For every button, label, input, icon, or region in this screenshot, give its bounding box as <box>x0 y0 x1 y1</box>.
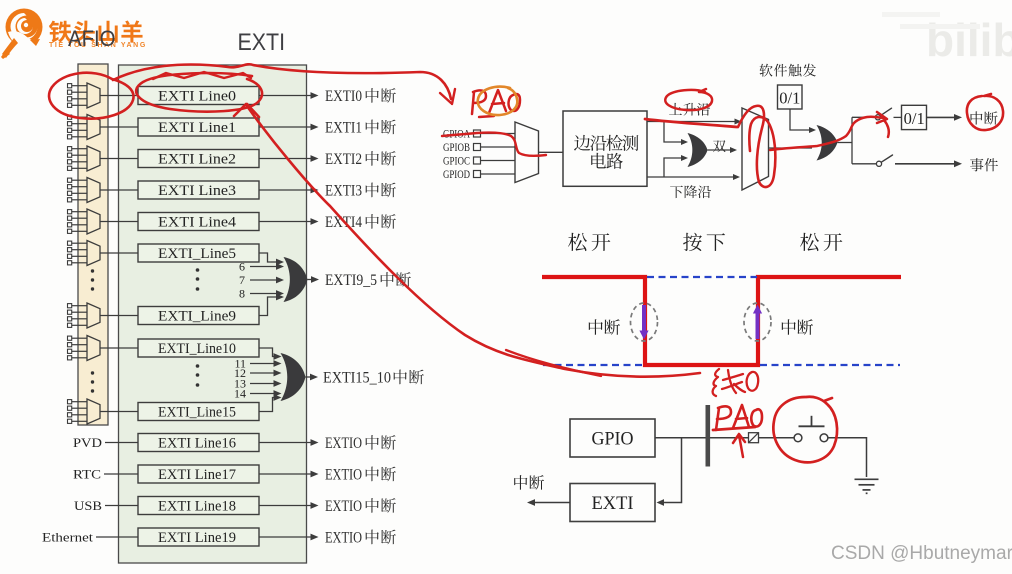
wire mux to edge detector <box>539 151 564 153</box>
wire G1 output <box>308 279 313 281</box>
svg-text:0/1: 0/1 <box>779 89 800 108</box>
bilibili watermark (faint) <box>882 12 1012 66</box>
label EXTI15_10 interrupt <box>323 370 424 387</box>
node RTC <box>73 467 101 482</box>
wires 11-14 to G2 <box>250 363 275 365</box>
label falling edge <box>670 185 711 198</box>
wire line16 output arrow <box>259 442 312 444</box>
title EXTI <box>238 29 286 56</box>
pin square GPIOA <box>474 130 481 137</box>
svg-text:EXTIO: EXTIO <box>325 498 362 515</box>
svg-text:EXTI Line2: EXTI Line2 <box>158 151 236 167</box>
AFIO mux row 4 <box>68 209 101 234</box>
GPIO box <box>570 419 655 457</box>
wire button to ground <box>828 438 867 477</box>
wire to event switch <box>852 163 876 165</box>
node GPIOC <box>443 156 470 168</box>
EXTI_Line19 box <box>138 528 259 546</box>
AFIO mux row 2 <box>68 146 101 171</box>
label EXTIEXTIO interrupt <box>325 467 396 484</box>
annotation: red line along rising edge wire <box>645 119 737 127</box>
wire line9 to G1 <box>259 297 277 316</box>
svg-text:EXTI3: EXTI3 <box>325 183 362 200</box>
svg-text:EXTI: EXTI <box>592 493 634 514</box>
EXTI_Line15 box <box>138 403 259 421</box>
annotation: red strike GPIOA and path to mux <box>442 133 546 156</box>
label software trigger <box>760 64 816 77</box>
annotation: red zigzag on oval <box>153 72 251 79</box>
svg-text:EXTI_Line5: EXTI_Line5 <box>158 246 236 262</box>
wire line19 output arrow <box>259 536 312 538</box>
switch S2 <box>876 161 881 166</box>
AFIO mux row 10 <box>68 336 101 361</box>
EXTI_Line5 box <box>138 244 259 262</box>
wire line2 output arrow <box>259 158 312 160</box>
wire rising edge to mux M3 <box>647 121 741 123</box>
svg-text:USB: USB <box>74 498 102 513</box>
wire mux row 1 to line box <box>100 126 138 128</box>
falling edge marker circle <box>631 303 658 341</box>
wire line1 output arrow <box>259 126 312 128</box>
register box 0/1 A <box>778 85 803 109</box>
svg-text:GPIOC: GPIOC <box>443 156 470 168</box>
register box 0/1 B <box>902 105 927 129</box>
wire to event <box>895 163 955 165</box>
logo: tietou shanyang emblem <box>1 9 43 60</box>
annotation: red line mux1 to PA0 arrow <box>113 64 451 99</box>
label EXTIEXTI0 interrupt <box>325 88 396 105</box>
wire RTC to line box <box>104 473 138 475</box>
wire mux row 10 to line box <box>100 347 138 349</box>
wire USB to line box <box>105 505 138 507</box>
svg-text:EXTI9_5: EXTI9_5 <box>325 272 377 289</box>
annotation: red arrowhead at PA0 <box>440 89 455 104</box>
wire mux row 3 to line box <box>100 189 138 191</box>
node numbers 11-14 <box>234 357 246 401</box>
wire line3 output arrow <box>259 189 312 191</box>
wire falling edge to mux M3 <box>647 176 734 178</box>
wire to interrupt switch <box>852 116 875 118</box>
label event <box>970 158 998 171</box>
svg-text:Ethernet: Ethernet <box>42 530 93 545</box>
annotation: red dash under PA0 top <box>479 116 494 117</box>
AFIO mux row 0 <box>68 83 101 108</box>
annotation: red PA0 bottom <box>716 405 749 430</box>
wire GPIOA to mux <box>481 133 516 135</box>
wire mux row 0 to line box <box>100 95 138 97</box>
EXTI_Line16 box <box>138 434 259 452</box>
annotation: red ellipse around rising edge label <box>665 89 712 110</box>
wire line4 output arrow <box>259 221 312 223</box>
AFIO dots <box>91 269 94 392</box>
pin square with cross <box>749 433 759 443</box>
svg-text:CSDN @Hbutneymar: CSDN @Hbutneymar <box>831 543 1012 564</box>
svg-text:EXTI_Line9: EXTI_Line9 <box>158 308 236 324</box>
label edge detection text <box>574 135 638 169</box>
svg-text:7: 7 <box>239 273 245 287</box>
svg-text:GPIO: GPIO <box>592 429 634 450</box>
svg-text:EXTIO: EXTIO <box>325 435 362 452</box>
svg-text:EXTI: EXTI <box>238 29 286 56</box>
dots lines6-8 <box>196 268 200 291</box>
wire line15 to G2 <box>259 398 275 412</box>
wire GPIOD to mux <box>481 173 516 175</box>
wire GPIOC to mux <box>481 160 516 162</box>
wire line0 output arrow <box>259 95 312 97</box>
svg-text:6: 6 <box>239 260 245 274</box>
wire mux M3 to G4 <box>769 147 813 149</box>
svg-text:EXTI Line3: EXTI Line3 <box>158 183 236 199</box>
label shuang both <box>713 140 726 152</box>
port pin bar <box>706 405 711 467</box>
annotation: red ellipse around AFIO mux1 <box>49 73 134 119</box>
wire mux row 5 to line box <box>100 252 138 254</box>
wire EXTI to interrupt arrow <box>534 502 570 504</box>
svg-text:EXTI Line18: EXTI Line18 <box>158 498 236 514</box>
svg-text:bilib: bilib <box>926 14 1012 66</box>
waveform red signal <box>542 277 901 365</box>
wire Ethernet to line box <box>96 536 138 538</box>
svg-text:EXTI1: EXTI1 <box>325 120 362 137</box>
AFIO mux row 3 <box>68 178 101 203</box>
CSDN watermark <box>831 543 1012 564</box>
EXTI_Line18 box <box>138 497 259 515</box>
svg-text:EXTI Line19: EXTI Line19 <box>158 530 236 546</box>
node numbers 6 7 8 <box>239 260 245 301</box>
or-gate G4 <box>817 125 838 161</box>
ground <box>855 478 879 480</box>
node GPIOB <box>443 142 470 154</box>
EXTI_Line0 box <box>138 87 259 105</box>
annotation: red arrow under Line0 with long curve <box>234 104 700 377</box>
EXTI block <box>119 65 307 563</box>
push button B1 <box>794 434 802 442</box>
logo text 铁头山羊 <box>49 20 143 42</box>
svg-text:EXTI_Line15: EXTI_Line15 <box>158 404 236 420</box>
annotation: red oval around EXTI Line0 <box>136 73 262 112</box>
dashed high level <box>647 276 757 278</box>
mux M2 port select <box>515 122 539 183</box>
svg-text:EXTIO: EXTIO <box>325 530 362 547</box>
annotation: red underline PA0 <box>713 427 755 430</box>
wire 0/1 B to interrupt <box>927 116 956 118</box>
wire G4 output split <box>838 142 853 144</box>
pin square GPIOD <box>474 171 481 178</box>
wire line17 output arrow <box>259 473 312 475</box>
edge detection circuit box <box>563 111 647 186</box>
wire line10 to G2 <box>259 348 275 357</box>
EXTI box <box>570 484 655 522</box>
annotation: red loop around mux M3 <box>738 106 775 187</box>
node Ethernet <box>42 530 93 545</box>
wire G3 to mux M3 <box>708 149 731 151</box>
svg-text:EXTI Line1: EXTI Line1 <box>158 120 236 136</box>
label interrupt waveform left <box>589 319 620 335</box>
svg-text:GPIOB: GPIOB <box>443 142 470 154</box>
wire line18 output arrow <box>259 505 312 507</box>
svg-text:EXTI0: EXTI0 <box>325 88 362 105</box>
annotation: red circle around interrupt top right <box>967 94 1003 130</box>
label rising edge <box>669 103 710 116</box>
node USB <box>74 498 102 513</box>
switch S1 <box>875 115 880 120</box>
falling edge purple arrow <box>642 305 646 331</box>
AFIO mux row 15 <box>68 399 101 424</box>
annotation: red up arrow at pin <box>733 434 745 457</box>
svg-text:RTC: RTC <box>73 467 101 482</box>
or-gate G1 lines5-9 <box>284 257 308 302</box>
wire mux row 4 to line box <box>100 221 138 223</box>
wire PVD to line box <box>105 442 138 444</box>
EXTI_Line3 box <box>138 181 259 199</box>
wire GPIOB to mux <box>481 146 516 148</box>
annotation: red swoosh under waveform <box>506 350 601 376</box>
label EXTIEXTIO interrupt <box>325 498 396 515</box>
label EXTIEXTIO interrupt <box>325 435 396 452</box>
node GPIOA <box>443 129 471 141</box>
svg-text:EXTI Line17: EXTI Line17 <box>158 467 236 483</box>
label EXTIEXTI2 interrupt <box>325 151 396 168</box>
EXTI_Line10 box <box>138 339 259 357</box>
label interrupt waveform right <box>782 319 813 335</box>
wire GPIO to pin <box>655 437 794 439</box>
svg-text:EXTI Line16: EXTI Line16 <box>158 435 236 451</box>
AFIO mux row 9 <box>68 303 101 328</box>
wire line5 to G1 <box>259 253 271 262</box>
label EXTI9_5 interrupt <box>325 272 411 289</box>
annotation: orange circle around PA0 <box>478 87 518 115</box>
EXTI_Line9 box <box>138 307 259 325</box>
label press <box>683 233 725 251</box>
EXTI_Line1 box <box>138 118 259 136</box>
annotation: red line mux M3 to switch <box>770 112 889 150</box>
wire mux row 9 to line box <box>100 315 138 317</box>
svg-text:EXTI15_10: EXTI15_10 <box>323 370 391 387</box>
dashed low level right <box>760 364 900 366</box>
EXTI_Line17 box <box>138 465 259 483</box>
svg-text:EXTI_Line10: EXTI_Line10 <box>158 341 236 357</box>
wire G2 output <box>306 376 312 378</box>
AFIO block <box>78 64 108 425</box>
svg-text:GPIOD: GPIOD <box>443 169 470 181</box>
pin square GPIOC <box>474 157 481 164</box>
label release 1 <box>568 233 610 251</box>
wire mux row 15 to line box <box>100 411 138 413</box>
AFIO mux row 5 <box>68 241 101 266</box>
label EXTIEXTI3 interrupt <box>325 183 396 200</box>
svg-text:0/1: 0/1 <box>904 109 925 128</box>
wire switch to 0/1 B <box>894 116 902 118</box>
logo subtext <box>49 42 147 49</box>
or-gate G3 both edges <box>688 133 708 167</box>
wires 6 7 8 to G1 <box>250 266 277 268</box>
dots lines11-14 <box>196 364 200 387</box>
label interrupt top right <box>971 111 998 124</box>
label interrupt bottom <box>514 475 544 490</box>
label release 2 <box>800 233 842 251</box>
or-gate G2 lines10-15 <box>281 353 306 401</box>
wire mux row 2 to line box <box>100 158 138 160</box>
svg-text:EXTI Line4: EXTI Line4 <box>158 214 237 230</box>
dashed low level left <box>543 364 643 366</box>
node PVD <box>73 435 102 450</box>
wire 0/1 A to G4 <box>790 109 809 130</box>
pin square GPIOB <box>474 144 481 151</box>
svg-text:14: 14 <box>234 387 246 401</box>
svg-text:PVD: PVD <box>73 435 102 450</box>
rising edge purple arrow <box>756 313 760 339</box>
mux M3 trigger select <box>742 108 769 190</box>
annotation: red circle around button <box>773 397 837 463</box>
rising edge marker circle <box>744 303 771 341</box>
svg-text:8: 8 <box>239 287 245 301</box>
wire branch rising to G3 <box>664 122 681 143</box>
label EXTIEXTIO interrupt <box>325 530 396 547</box>
EXTI_Line4 box <box>138 213 259 231</box>
EXTI_Line2 box <box>138 150 259 168</box>
wire branch falling to G3 <box>664 158 681 177</box>
node GPIOD <box>443 169 470 181</box>
label EXTIEXTI1 interrupt <box>325 120 396 137</box>
title AFIO <box>68 26 116 51</box>
label EXTIEXTI4 interrupt <box>325 214 396 231</box>
svg-text:EXTI Line0: EXTI Line0 <box>158 88 236 104</box>
svg-text:EXTI2: EXTI2 <box>325 151 362 168</box>
AFIO mux row 1 <box>68 115 101 140</box>
annotation: red handwriting xian0 <box>713 369 745 396</box>
svg-text:EXTIO: EXTIO <box>325 467 362 484</box>
annotation: red PA0 top <box>472 90 506 114</box>
wire branch GPIO to EXTI <box>663 438 682 503</box>
svg-text:AFIO: AFIO <box>68 26 116 51</box>
